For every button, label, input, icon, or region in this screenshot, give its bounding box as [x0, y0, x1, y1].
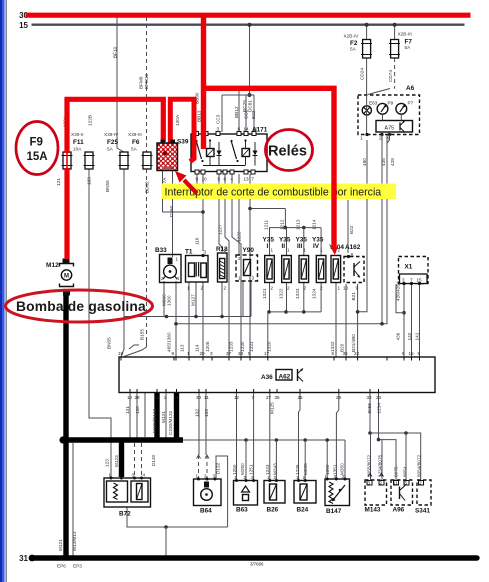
- svg-text:B147: B147: [326, 508, 342, 515]
- svg-text:6: 6: [224, 177, 227, 182]
- svg-text:Bomba de gasolina: Bomba de gasolina: [16, 299, 146, 314]
- svg-text:D360: D360: [169, 205, 174, 217]
- wire BFM8/BFM10 dashed top: [146, 17, 148, 152]
- svg-text:10: 10: [202, 177, 208, 182]
- svg-text:133: 133: [204, 409, 209, 417]
- svg-text:5: 5: [248, 351, 251, 356]
- svg-text:BFM10: BFM10: [144, 73, 149, 89]
- svg-text:122B: 122B: [88, 115, 93, 126]
- svg-text:F25: F25: [107, 139, 118, 146]
- svg-text:X39-IV: X39-IV: [104, 132, 119, 137]
- svg-text:1323: 1323: [295, 288, 300, 299]
- svg-text:19: 19: [154, 395, 160, 400]
- svg-text:27: 27: [266, 395, 272, 400]
- svg-text:1: 1: [224, 248, 227, 253]
- injector Y35-I: [265, 256, 275, 283]
- svg-text:15: 15: [417, 278, 423, 283]
- svg-text:2: 2: [164, 395, 167, 400]
- A6 pins: [366, 95, 368, 135]
- svg-text:1: 1: [304, 248, 307, 253]
- svg-text:141: 141: [415, 332, 420, 340]
- wire Y104 bottom 1332: [335, 283, 337, 357]
- svg-text:10A: 10A: [73, 147, 82, 152]
- svg-text:M143: M143: [365, 507, 381, 514]
- svg-text:29: 29: [336, 395, 342, 400]
- svg-text:M127: M127: [191, 294, 196, 306]
- svg-text:116: 116: [195, 237, 200, 245]
- svg-text:P9: P9: [388, 101, 394, 106]
- injector common H: [268, 311, 321, 313]
- wire relay pin7 to injector feed: [250, 174, 285, 209]
- svg-text:10: 10: [343, 286, 349, 291]
- ground bus 31: [32, 555, 477, 560]
- svg-text:3: 3: [368, 481, 371, 486]
- throttle potentiometer B147: [325, 478, 350, 506]
- svg-text:3: 3: [213, 474, 216, 479]
- svg-text:F11: F11: [73, 139, 84, 146]
- svg-text:15: 15: [409, 351, 415, 356]
- fuse F25 body: [119, 152, 130, 169]
- svg-text:5A: 5A: [107, 147, 114, 152]
- red wire through fuse F9: [66, 153, 68, 168]
- svg-text:B21/4B0: B21/4B0: [351, 334, 356, 352]
- svg-text:5A: 5A: [405, 45, 412, 50]
- svg-text:A6: A6: [406, 85, 415, 92]
- valve Y104: [331, 256, 341, 283]
- svg-text:Y35: Y35: [263, 237, 275, 244]
- svg-text:D130: D130: [151, 454, 156, 466]
- wire diagonal into A6: [368, 89, 390, 95]
- wires ECU 30/11 to B64: [198, 393, 200, 456]
- svg-text:5: 5: [218, 177, 221, 182]
- svg-text:BB12: BB12: [234, 106, 239, 118]
- svg-text:8054: 8054: [403, 466, 408, 477]
- svg-text:1251: 1251: [249, 464, 254, 475]
- svg-text:M121: M121: [58, 539, 63, 551]
- ground link H1: [124, 316, 251, 318]
- red link S39 right pin to relay switch: [170, 99, 194, 161]
- svg-text:25: 25: [298, 395, 304, 400]
- right ground distribution: [370, 433, 421, 480]
- svg-text:E63: E63: [369, 101, 378, 106]
- svg-text:1: 1: [238, 276, 241, 281]
- svg-text:1: 1: [287, 248, 290, 253]
- svg-text:123: 123: [105, 459, 110, 467]
- svg-text:EP6: EP6: [57, 564, 66, 569]
- injector Y35-III: [299, 256, 309, 283]
- svg-text:18: 18: [118, 351, 124, 356]
- svg-text:B24: B24: [297, 507, 309, 514]
- svg-text:I: I: [267, 243, 269, 250]
- svg-text:X39-III: X39-III: [128, 132, 142, 137]
- sensor B63: [234, 479, 258, 505]
- relay pins top: [195, 132, 199, 136]
- wires S39 bottom to components: [162, 170, 164, 212]
- connector S341: [417, 480, 431, 505]
- svg-text:2: 2: [274, 475, 277, 480]
- svg-text:6: 6: [402, 351, 405, 356]
- svg-text:33: 33: [238, 351, 244, 356]
- svg-text:D132: D132: [216, 462, 221, 474]
- wire R18 bottom: [221, 282, 223, 317]
- svg-text:CD74: CD74: [388, 70, 393, 82]
- wire T1 bottoms: [188, 282, 190, 357]
- svg-text:15A: 15A: [27, 151, 48, 163]
- bus 15 line: [32, 24, 465, 26]
- ignition coil T1: [186, 254, 209, 282]
- fuse F6 body: [142, 152, 153, 169]
- wire elbow to relay pins 3,14,12: [222, 94, 254, 96]
- fuse F11 body: [84, 152, 95, 169]
- bus 30 (+battery): [26, 13, 471, 18]
- relay2 coil: [242, 149, 250, 157]
- wires X1 pins down to ECU: [403, 284, 405, 357]
- injector feed bus: [269, 227, 321, 229]
- instrument cluster A6: [358, 95, 420, 143]
- svg-text:23: 23: [376, 395, 382, 400]
- svg-text:M131: M131: [161, 411, 166, 423]
- svg-text:130: 130: [135, 406, 140, 414]
- relay1 diode: [217, 151, 222, 156]
- svg-text:1227: 1227: [218, 224, 223, 235]
- svg-text:B63: B63: [236, 507, 248, 514]
- svg-text:M235: M235: [303, 463, 308, 475]
- wire pin2 C230: [165, 393, 167, 441]
- wire B72/B64 bottom links: [127, 507, 228, 527]
- svg-text:22: 22: [354, 351, 360, 356]
- svg-text:R18: R18: [216, 246, 228, 253]
- svg-text:A96: A96: [393, 507, 405, 514]
- svg-text:2: 2: [419, 481, 422, 486]
- svg-text:2: 2: [320, 286, 323, 291]
- svg-text:C230/M131: C230/M131: [168, 410, 173, 435]
- red arrow to S39: [184, 180, 197, 194]
- wire relay pin9 down: [196, 174, 198, 184]
- ellipse highlight Reles: [266, 130, 313, 171]
- svg-text:CC2: CC2: [244, 109, 249, 119]
- svg-text:S39: S39: [177, 139, 189, 146]
- wire CD74 from bus 15 through fuse F7, dashed: [394, 25, 396, 40]
- svg-text:15: 15: [19, 21, 28, 30]
- svg-text:3: 3: [402, 278, 405, 283]
- wire ECU 29 to B147 1351: [336, 393, 338, 480]
- svg-text:5A: 5A: [131, 147, 138, 152]
- svg-text:5A: 5A: [350, 47, 357, 52]
- wire BN55 from fuse F25 down to ECU pin 18: [121, 169, 124, 357]
- svg-text:1: 1: [320, 248, 323, 253]
- relay2 diode: [253, 151, 258, 156]
- ground distribution line right of bar: [183, 439, 345, 441]
- relay box A171: [191, 132, 267, 175]
- wires below ECU left: 131 130: [129, 393, 131, 441]
- svg-text:2: 2: [238, 256, 241, 261]
- svg-text:X2B-IV: X2B-IV: [344, 34, 360, 39]
- svg-text:7: 7: [410, 278, 413, 283]
- svg-text:426/426A: 426/426A: [396, 280, 401, 301]
- svg-text:2: 2: [271, 286, 274, 291]
- svg-text:1324: 1324: [312, 288, 317, 299]
- svg-text:14: 14: [174, 395, 180, 400]
- wire B33 bottom M360/1360: [163, 281, 165, 317]
- resistor R18: [218, 253, 228, 282]
- svg-text:B21: B21: [351, 292, 356, 301]
- wire relay pin10 down to T1 pin3: [202, 174, 204, 251]
- svg-text:M243: M243: [273, 463, 278, 475]
- svg-text:X1: X1: [405, 264, 413, 271]
- svg-text:1: 1: [267, 475, 270, 480]
- svg-text:F6: F6: [132, 139, 140, 146]
- injector Y35-IV: [316, 256, 326, 283]
- svg-text:1322: 1322: [279, 288, 284, 299]
- svg-text:11: 11: [204, 395, 209, 400]
- wire drops to injectors: [269, 228, 271, 256]
- temp sensor B26: [264, 479, 285, 503]
- lamp in A6: [362, 106, 371, 115]
- svg-text:1: 1: [109, 473, 112, 478]
- svg-text:2: 2: [204, 474, 207, 479]
- svg-text:4: 4: [231, 177, 234, 182]
- svg-text:BB13: BB13: [197, 110, 202, 122]
- svg-text:5: 5: [332, 351, 335, 356]
- wire B64 pin3 D132: [216, 456, 228, 527]
- wires ECU 32,23 down right: [369, 393, 371, 434]
- svg-text:III: III: [297, 243, 303, 250]
- svg-text:CC3: CC3: [216, 114, 221, 124]
- wires ECU 12,7 to B63: [236, 393, 238, 481]
- ECU box A36/A62: [119, 357, 435, 393]
- relay1 coil: [207, 149, 215, 157]
- svg-text:14: 14: [244, 127, 250, 132]
- svg-text:M12/M13: M12/M13: [72, 531, 77, 551]
- highlight label: inertia fuel cut-off switch: [162, 184, 397, 200]
- svg-text:CD24: CD24: [360, 68, 365, 80]
- wire 1320 drop to ECU pin17: [267, 312, 269, 357]
- wire 123 from fuse F11 down: [89, 169, 111, 477]
- long ground H from A6 428 wire: [176, 134, 387, 357]
- transistor in A75: [399, 123, 401, 131]
- svg-text:3: 3: [132, 473, 135, 478]
- svg-text:1235: 1235: [295, 464, 300, 475]
- svg-text:3: 3: [204, 250, 207, 255]
- svg-text:B155: B155: [140, 329, 145, 340]
- svg-text:3/7686: 3/7686: [250, 562, 264, 567]
- svg-text:A162: A162: [345, 244, 361, 251]
- svg-text:1250: 1250: [232, 464, 237, 475]
- svg-text:IV: IV: [313, 243, 320, 250]
- svg-text:13: 13: [244, 177, 250, 182]
- wire red branch to the right: [201, 86, 337, 91]
- sensor B64: [194, 478, 222, 506]
- thick wire ECU pin14 to bar: [174, 393, 179, 441]
- svg-text:1: 1: [196, 474, 199, 479]
- svg-text:1: 1: [338, 286, 341, 291]
- svg-text:2: 2: [338, 248, 341, 253]
- svg-text:4: 4: [387, 136, 390, 141]
- svg-text:BN55: BN55: [105, 180, 110, 192]
- svg-text:B22: B22: [251, 110, 256, 119]
- module A96: [391, 480, 413, 505]
- svg-text:1321: 1321: [262, 288, 267, 299]
- module A162: [344, 255, 364, 283]
- svg-text:B22: B22: [349, 225, 354, 234]
- left blue margin bar: [0, 0, 2, 582]
- svg-text:P7: P7: [408, 101, 414, 106]
- fuse F2 body: [361, 40, 372, 59]
- svg-text:3: 3: [334, 474, 337, 479]
- svg-text:1: 1: [234, 475, 237, 480]
- wire BB12 relay pin 8 up to red branch: [238, 88, 240, 132]
- svg-text:B26: B26: [267, 507, 279, 514]
- wires M123 and B72 pin1: [110, 443, 112, 477]
- temp sensor B24: [294, 479, 316, 503]
- svg-text:F9: F9: [30, 137, 43, 149]
- wire 426/426A elbow: [396, 284, 404, 313]
- svg-text:480: 480: [362, 158, 367, 166]
- svg-text:1213: 1213: [296, 219, 301, 230]
- svg-text:436: 436: [396, 332, 401, 340]
- ECU pin ticks: [121, 357, 420, 393]
- svg-text:1214: 1214: [312, 219, 317, 230]
- left margin rule: [5, 0, 7, 582]
- wire Y90 bottoms: [250, 281, 252, 317]
- svg-text:1: 1: [271, 248, 274, 253]
- svg-text:S341: S341: [415, 508, 430, 515]
- svg-text:M250: M250: [240, 463, 245, 475]
- gauge P7: [396, 103, 407, 114]
- wire B72 ground to bus: [72, 443, 74, 556]
- svg-text:465/1360: 465/1360: [167, 332, 172, 352]
- svg-text:9: 9: [418, 351, 421, 356]
- svg-text:9: 9: [172, 351, 175, 356]
- svg-text:2: 2: [161, 276, 164, 281]
- svg-text:Relés: Relés: [268, 144, 307, 160]
- glow plug resistor B72: [104, 477, 151, 508]
- wire relay pin13 down to Y90: [238, 174, 240, 255]
- svg-text:B64: B64: [200, 508, 212, 515]
- relay internal bottom link: [203, 165, 245, 167]
- wire to B147 1350: [326, 440, 328, 479]
- wire CD24 from bus 15 through fuse F2 to A6: [366, 25, 368, 40]
- wire relay pin5 to R18: [219, 174, 222, 252]
- thick ground bar below ECU: [61, 437, 183, 442]
- wire 1231 long vertical: [249, 209, 251, 312]
- svg-text:3: 3: [252, 276, 255, 281]
- svg-text:9: 9: [196, 177, 199, 182]
- wire 435 from A6: [381, 140, 383, 324]
- svg-text:EP3: EP3: [73, 564, 82, 569]
- svg-text:113: 113: [180, 344, 185, 352]
- svg-text:X2B-III: X2B-III: [398, 32, 412, 37]
- svg-text:II: II: [282, 243, 286, 250]
- svg-text:1211: 1211: [264, 220, 269, 230]
- svg-text:5: 5: [405, 481, 408, 486]
- svg-text:1222: 1222: [237, 231, 242, 242]
- wire B22 right of relay down to A162 pin8: [347, 200, 349, 253]
- svg-text:2: 2: [244, 475, 247, 480]
- svg-text:11: 11: [393, 481, 398, 486]
- ground wire from M12 to bus 31: [63, 295, 68, 558]
- svg-text:M12: M12: [46, 262, 59, 269]
- svg-text:8055: 8055: [367, 403, 372, 414]
- svg-text:2: 2: [287, 286, 290, 291]
- ellipse highlight Bomba de gasolina: [6, 290, 153, 322]
- svg-text:140: 140: [407, 332, 412, 340]
- svg-text:Y90: Y90: [243, 247, 255, 254]
- svg-text:BF10: BF10: [113, 46, 118, 58]
- svg-text:M123: M123: [114, 455, 119, 467]
- svg-text:2: 2: [303, 475, 306, 480]
- svg-text:M130/D132: M130/D132: [152, 408, 157, 433]
- svg-text:4: 4: [143, 473, 146, 478]
- svg-text:10: 10: [127, 395, 133, 400]
- wire 480 from A6 to A162: [359, 140, 367, 312]
- svg-text:8: 8: [351, 252, 354, 257]
- connector X1: [399, 257, 429, 286]
- fuse F7 body: [389, 40, 400, 59]
- svg-text:132: 132: [195, 409, 200, 417]
- wire BF10 vertical: [117, 17, 124, 152]
- ellipse highlight F9 15A: [16, 122, 58, 175]
- svg-text:1212: 1212: [280, 219, 285, 230]
- svg-text:428: 428: [390, 158, 395, 166]
- svg-text:7: 7: [252, 177, 255, 182]
- motor M12 fuel pump: [60, 259, 74, 296]
- svg-text:1234/8075: 1234/8075: [378, 454, 383, 477]
- thick wire ECU pin19 to bar: [154, 393, 159, 441]
- svg-text:BFM8: BFM8: [139, 76, 144, 89]
- svg-text:3: 3: [177, 276, 180, 281]
- svg-text:120A: 120A: [175, 114, 180, 126]
- svg-text:2: 2: [201, 286, 204, 291]
- svg-text:1: 1: [296, 475, 299, 480]
- svg-text:2: 2: [119, 473, 122, 478]
- svg-text:3: 3: [251, 475, 254, 480]
- injector Y35-II: [282, 256, 292, 283]
- svg-text:B33: B33: [155, 247, 167, 254]
- svg-text:2: 2: [380, 481, 383, 486]
- svg-text:X39-II: X39-II: [71, 132, 84, 137]
- svg-text:17: 17: [264, 351, 270, 356]
- thick wire bar to B72 pin2: [119, 440, 124, 477]
- svg-text:A36: A36: [261, 374, 273, 381]
- wire DC25/DC81 from bus 15 down: [249, 25, 251, 95]
- red wire fuse F9 to pump M12: [64, 168, 69, 259]
- A75 box inside A6: [376, 121, 413, 133]
- svg-text:32: 32: [367, 395, 373, 400]
- svg-text:8054/8072: 8054/8072: [417, 454, 422, 477]
- wire relay pin6 long down to ECU 1233: [225, 174, 229, 357]
- wire A162 pin9 B21/4B0: [357, 284, 359, 357]
- wire ECU 27 to B26: [269, 393, 271, 481]
- svg-text:131: 131: [125, 406, 130, 414]
- svg-text:B72: B72: [119, 511, 131, 518]
- svg-text:A62: A62: [279, 374, 291, 381]
- svg-text:2: 2: [224, 286, 227, 291]
- wire A162 pin10 B20: [345, 284, 347, 357]
- wire V1 from bus 30 down into relay A171: [201, 13, 206, 149]
- wires B72 pins 3,4 dashed: [134, 443, 136, 477]
- svg-text:1234: 1234: [377, 403, 382, 414]
- wire relay pin4 long down to ECU 1230: [232, 174, 241, 357]
- valve Y90: [236, 255, 258, 281]
- svg-text:35: 35: [343, 351, 349, 356]
- svg-text:BN55: BN55: [107, 337, 112, 349]
- svg-text:8055/8072: 8055/8072: [367, 454, 372, 477]
- wire BD62/B155 dashed from fuse F6 down: [146, 169, 148, 341]
- relay pins bottom: [195, 170, 199, 174]
- wire ECU 25 to B24: [299, 393, 301, 481]
- connector M143: [365, 474, 387, 506]
